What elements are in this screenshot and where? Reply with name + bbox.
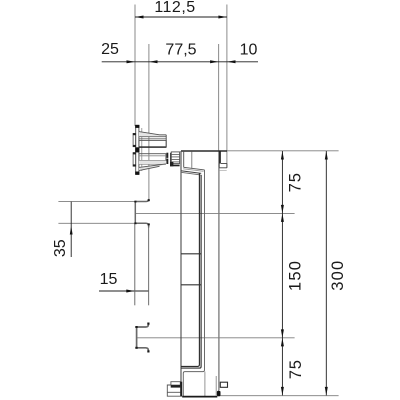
hook lip left edge — [218, 164, 220, 168]
ext line y=201.5 left — [58, 201, 137, 203]
arrow 35 up — [70, 226, 73, 235]
upper hook right drop — [148, 226, 150, 305]
lower hook spine — [136, 326, 138, 348]
ext line y=337.8 — [137, 337, 294, 339]
ext line y=395.7 bottom — [218, 395, 339, 397]
rail bottom tab — [220, 382, 227, 387]
svg-text:15: 15 — [100, 271, 118, 288]
upper anchor wedge fill — [139, 132, 166, 137]
upper hook spine — [134, 201, 136, 223]
svg-text:77,5: 77,5 — [165, 42, 196, 59]
arrow 300 up — [325, 151, 328, 160]
body bottom edge — [182, 396, 217, 398]
coupler box — [171, 152, 179, 164]
arrow 75bot down — [281, 387, 284, 396]
anchor flange plate — [136, 125, 139, 174]
arrow 77,5 right — [210, 60, 219, 63]
flange inner line — [141, 128, 143, 171]
lower hook bottom arm with stub — [137, 348, 149, 353]
lower anchor wedge fill — [139, 164, 166, 171]
svg-text:35: 35 — [52, 239, 69, 257]
hook lip bottom — [219, 167, 227, 169]
head slot line — [191, 152, 193, 170]
ext line y=213.4 — [136, 212, 295, 214]
flange black cap top — [135, 125, 139, 128]
arrow 150 up — [281, 213, 284, 222]
rail inner line continuing — [204, 372, 206, 396]
arrow 75top up — [281, 151, 284, 160]
arm left edge — [180, 151, 182, 395]
upper hook corner dots — [148, 199, 150, 201]
ext line x=226.9 — [226, 5, 228, 168]
faint ledge under lip — [220, 169, 227, 171]
rung 2 — [181, 284, 201, 286]
dim line 35 vertical — [70, 202, 72, 257]
upper hook left drop — [134, 224, 136, 305]
ext line x=218.65 — [218, 44, 220, 168]
upper rod right end — [165, 135, 167, 147]
arrow 15 — [126, 290, 135, 293]
head inner diagonal b — [183, 169, 203, 172]
rail line x=201.1 with bottom corner — [181, 175, 201, 368]
head inner diagonal a — [184, 167, 205, 170]
svg-text:75: 75 — [287, 359, 305, 379]
coupler dark step — [170, 162, 173, 166]
body right edge bottom — [215, 376, 217, 396]
upper anchor rod lines — [139, 136, 166, 138]
hook lip top — [221, 163, 227, 165]
rung 1 — [181, 253, 201, 255]
rail line x=204.5 with bottom corner — [183, 170, 204, 396]
arrow 10 — [227, 60, 236, 63]
dim line 25/77,5/10 row — [102, 61, 258, 63]
head inner edge vertical — [183, 152, 185, 168]
ext line x=218.9 lower — [218, 168, 220, 390]
upper hook bottom arm with corner — [135, 223, 148, 227]
rail line x=199.4 with bottom corner — [181, 173, 199, 366]
ext line y=223.3 left — [58, 222, 135, 224]
rod ridge blocks — [166, 153, 168, 158]
arrow 150 down — [281, 329, 284, 338]
upper hook top arm with corner — [135, 199, 149, 202]
arrow 112,5 left — [135, 16, 144, 19]
arrow 77,5 left — [149, 60, 158, 63]
flange black cap middle — [135, 147, 139, 152]
svg-text:150: 150 — [287, 260, 305, 291]
svg-text:75: 75 — [286, 172, 304, 192]
svg-text:112,5: 112,5 — [154, 0, 195, 16]
flange black cap bottom — [135, 172, 139, 175]
svg-text:25: 25 — [101, 41, 119, 58]
head dark band — [219, 151, 221, 163]
ext line y=150.85 right — [227, 150, 339, 152]
upper rod dark bottom — [139, 146, 166, 148]
arrow 25 — [127, 60, 136, 63]
lower anchor band fill — [139, 161, 166, 165]
foot dark notch — [171, 385, 181, 388]
arrow 75bot up — [281, 338, 284, 347]
washer lower — [133, 153, 136, 167]
arm top edge — [181, 150, 227, 152]
dim line 15 — [99, 290, 149, 292]
ext line x=218.9 foot — [218, 390, 220, 394]
ext line x=148.9 — [148, 44, 150, 199]
ext line x=135 — [134, 5, 136, 127]
foot mid line — [167, 391, 180, 393]
lower hook corner dots — [135, 326, 137, 328]
lower anchor rod box — [139, 154, 166, 161]
upper anchor rod box — [139, 140, 166, 147]
dim line x=282.4 vertical — [281, 151, 283, 395]
washer upper — [133, 133, 136, 146]
svg-text:300: 300 — [329, 260, 347, 291]
svg-text:10: 10 — [240, 42, 258, 59]
foot dark band — [180, 382, 182, 397]
head outer diagonal b — [181, 172, 201, 175]
foot top lip — [171, 382, 180, 385]
arrow 300 down — [325, 387, 328, 396]
lower anchor wedge — [139, 164, 166, 168]
hook lip right — [226, 164, 228, 168]
arrow 112,5 right — [218, 16, 227, 19]
rail dark blob — [217, 391, 221, 397]
lower anchor band — [139, 163, 166, 165]
foot body outline — [167, 385, 180, 396]
arrow 75top down — [281, 205, 284, 214]
dim line x=326.3 vertical — [325, 151, 327, 395]
dim line 112,5 — [135, 16, 227, 18]
lower hook stub up with corner — [137, 323, 149, 327]
upper anchor wedge — [139, 132, 166, 135]
head outer diagonal a — [181, 171, 201, 174]
